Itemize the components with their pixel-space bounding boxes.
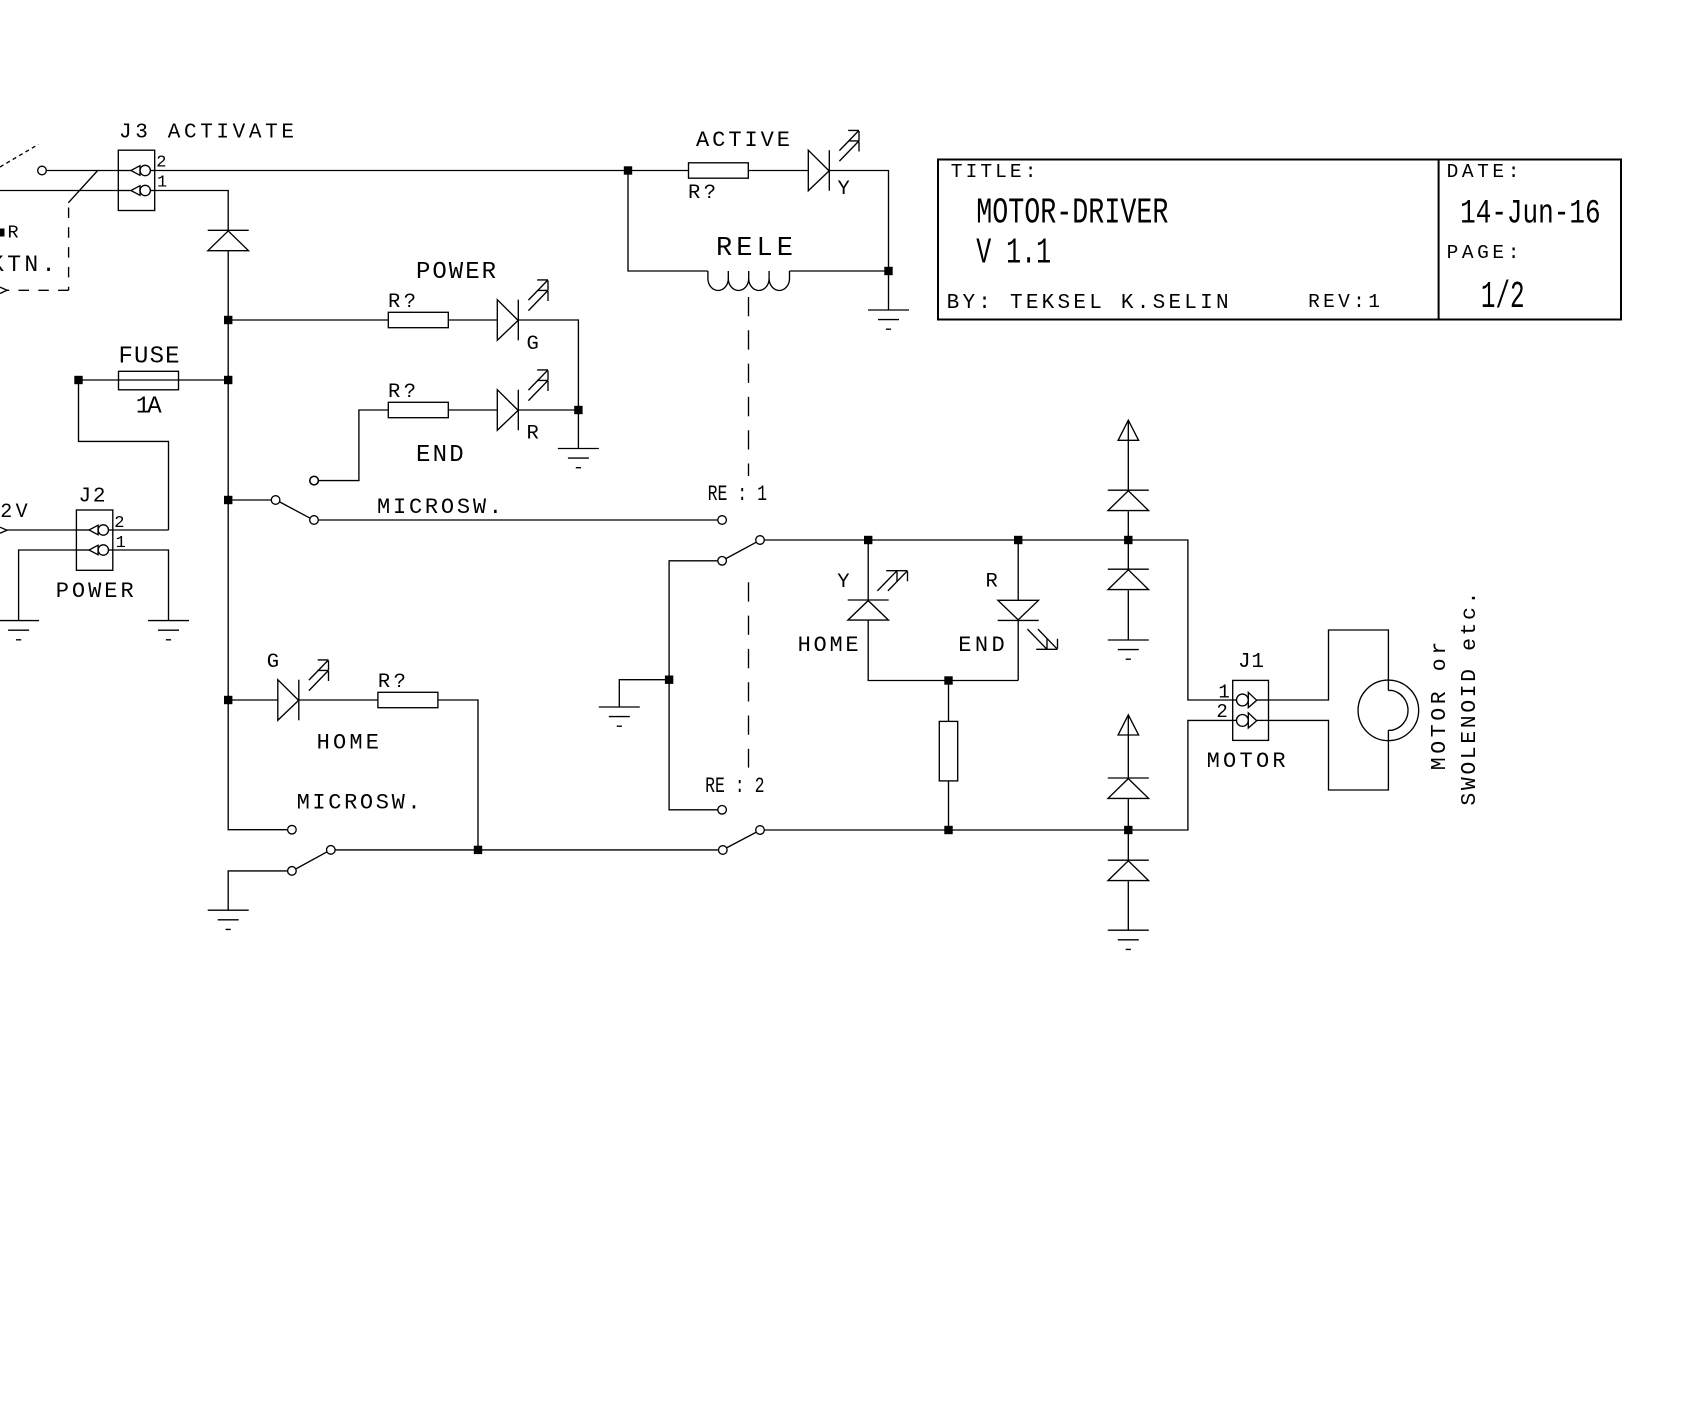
wire D3 to ground (1127, 590, 1129, 640)
svg-text:END: END (958, 633, 1005, 658)
svg-text:MOTOR-DRIVER: MOTOR-DRIVER (976, 193, 1168, 234)
wire R? HOME down to microswitch2 rail (438, 700, 478, 850)
ground END leds (558, 449, 599, 468)
label POWER (led) (416, 259, 496, 286)
RE:2 upper contact (718, 806, 727, 815)
wire LED G to R? (HOME) (299, 699, 378, 701)
wire top rail J3 to ACTIVE junction (155, 170, 689, 172)
ground J2 left (0, 621, 39, 640)
wire END switch contact to R? (319, 410, 389, 481)
label G (POWER led) (527, 333, 539, 356)
microswitch1 lower contact (310, 516, 319, 525)
wire ACTIVE junction down to coil left (628, 171, 708, 272)
RE:1 lever (726, 542, 756, 558)
label RE : 1 (708, 482, 767, 507)
wire R? to LED R (448, 409, 497, 411)
label END (relay led) (958, 633, 1005, 658)
RE:2 common contact (756, 826, 765, 835)
junction HOME resistor / microswitch2 rail (474, 846, 482, 854)
svg-text:2: 2 (156, 153, 166, 172)
junction bottom node resistor (944, 676, 952, 684)
ground RELE (868, 310, 909, 329)
svg-text:FUSE: FUSE (119, 344, 180, 371)
svg-text:12V: 12V (0, 501, 31, 524)
wire rail2 RE:2 common to J1 riser (764, 720, 1232, 830)
junction ACTIVE tap (624, 166, 632, 174)
LED Y (HOME) triangle (848, 601, 889, 621)
title block frame (938, 160, 1621, 320)
ground lower ladder (1108, 930, 1149, 949)
J3 pin number 2 (156, 153, 166, 172)
label MICROSW. (2) (297, 791, 421, 816)
wire J1 pin2 to motor loop (1269, 720, 1389, 790)
label PAGE: (1447, 242, 1520, 264)
label MICROSW. (1) (377, 495, 502, 520)
wire page edge to J3 pin 1 (0, 190, 118, 192)
wire J3 pin1 to diode D1 (155, 191, 229, 231)
label HOME (relay led) (798, 633, 859, 658)
connector J3 (118, 150, 154, 210)
label REV:1 (1308, 291, 1380, 313)
J1 pin number 1 (1218, 682, 1229, 704)
svg-text:RE : 2: RE : 2 (705, 774, 764, 799)
wire main rail down (228, 320, 287, 830)
LED G HOME arrows (309, 660, 329, 691)
label Y (ACTIVE led) (838, 178, 850, 201)
wire main rail to microswitch1 (232, 499, 271, 501)
wire rail1 to diode D3 (1127, 540, 1129, 569)
svg-text:2: 2 (1216, 701, 1227, 723)
LED Y HOME arrows (877, 571, 907, 591)
wire LED Y down to relay coil right (829, 171, 888, 272)
label J2 (79, 485, 106, 508)
junction main rail HOME led (224, 696, 232, 704)
svg-text:DATE:: DATE: (1447, 161, 1520, 183)
label R? (POWER) (388, 291, 416, 314)
svg-text:POWER: POWER (56, 579, 134, 604)
label BY: TEKSEL K.SELIN (947, 292, 1229, 315)
svg-text:J3 ACTIVATE: J3 ACTIVATE (119, 122, 294, 145)
wire junction to ground (577, 410, 579, 449)
wire rail1 to LED Y (HOME) (867, 540, 869, 600)
wire J2 pin 1 left to ground (19, 550, 77, 621)
diode D2 (upper ladder top) (1108, 490, 1149, 510)
wire R? to LED G (448, 319, 497, 321)
label END (416, 442, 464, 469)
fuse F1 body (119, 371, 179, 390)
microswitch1 lever (280, 502, 311, 518)
J3 pin 2 symbol (118, 165, 154, 175)
LED G (HOME) (278, 680, 299, 721)
LED R (END) triangle (998, 600, 1039, 620)
label R? (END) (388, 381, 416, 404)
svg-text:R: R (986, 570, 998, 593)
off-page arrow 12V (0, 527, 7, 533)
label 1A (136, 394, 163, 421)
ground J2 right (148, 621, 189, 640)
wire D4 to rail2 (1127, 799, 1129, 830)
resistor R? (END) (388, 402, 448, 417)
junction rail2 diode ladder (1124, 826, 1132, 834)
microswitch2 lower contact (288, 867, 297, 876)
label R (clipped word) (0, 223, 19, 244)
label J3 ACTIVATE (119, 122, 294, 145)
wire LED R to bottom node (1017, 620, 1019, 680)
svg-text:REV:1: REV:1 (1308, 291, 1380, 313)
relay coil RELE (708, 271, 790, 291)
wire fuse row (79, 379, 229, 381)
microswitch2 common contact (327, 846, 336, 855)
resistor (relay leds) vertical (939, 721, 957, 781)
motor M1 body (1358, 680, 1419, 741)
off-page arrow up (supply, upper ladder) (1118, 420, 1139, 440)
wire D5 to ground (1127, 881, 1129, 930)
wire J2 pin 1 right to ground (113, 550, 169, 621)
svg-text:J2: J2 (79, 485, 106, 508)
contact circle END microswitch (310, 476, 319, 485)
svg-text:G: G (527, 333, 539, 356)
junction main rail fuse (224, 376, 232, 384)
wire LED Y to bottom node (868, 620, 1018, 680)
label R? (HOME) (378, 671, 406, 694)
wire D2 to rail1 (1127, 511, 1129, 540)
junction rail2 resistor (944, 826, 952, 834)
junction fuse left (74, 376, 82, 384)
wire J2 pin 2 right (113, 529, 169, 531)
label FUSE (119, 344, 180, 371)
svg-text:V 1.1: V 1.1 (976, 233, 1051, 274)
junction rail1 LED R (1014, 536, 1022, 544)
J2 pin 2 symbol (76, 525, 112, 535)
svg-text:MOTOR: MOTOR (1207, 749, 1286, 774)
title V 1.1 (976, 233, 1051, 274)
microswitch2 upper contact (288, 825, 297, 834)
J3 pin number 1 (157, 174, 167, 193)
wire S1 contact to J3 pin 2 (46, 170, 118, 172)
svg-text:J1: J1 (1238, 651, 1264, 674)
LED Y (HOME) cathode bar (848, 599, 889, 601)
wire ground to microswitch2 lower (228, 871, 287, 910)
junction coil right (884, 267, 892, 275)
J1 pin 1 symbol (1233, 692, 1269, 707)
off-page arrow up (supply, lower ladder) (1118, 715, 1139, 735)
LED Y arrows (839, 130, 859, 161)
diode D5 (lower ladder bottom) (1108, 860, 1149, 880)
junction main rail microswitch1 (224, 496, 232, 504)
svg-text:Y: Y (838, 178, 850, 201)
RE:1 upper contact (718, 516, 727, 525)
wire HOME tap to LED G (228, 699, 278, 701)
date 14-Jun-16 (1460, 196, 1601, 234)
label KTN. (0, 252, 59, 278)
junction END leds (574, 406, 582, 414)
label DATE: (1447, 161, 1520, 183)
junction main rail POWER tap (224, 316, 232, 324)
label R (END relay led) (986, 570, 998, 593)
diode D1 (208, 230, 249, 250)
LED R (END) (497, 390, 518, 431)
wire rail1 RE:1 common to J1 riser (764, 540, 1232, 700)
label MOTOR (J1) (1207, 749, 1286, 774)
motor M1 inner arc (1388, 690, 1408, 730)
J1 pin 2 symbol (1233, 713, 1269, 728)
LED G arrows (528, 280, 548, 311)
wire resistor to rail2 (948, 781, 950, 830)
junction rail1 LED Y (864, 536, 872, 544)
wire power tap to R? (228, 319, 388, 321)
svg-text:1: 1 (157, 174, 167, 193)
diode D4 (lower ladder top) (1108, 778, 1149, 798)
RE:1 lower contact (718, 557, 727, 566)
wire fuse left to J2 pin2 riser (79, 380, 169, 530)
label POWER (J2) (56, 579, 134, 604)
wire microswitch1 to RE:1 (318, 519, 718, 521)
svg-text:KTN.: KTN. (0, 252, 59, 278)
ground contacts bus (599, 707, 640, 726)
svg-text:1/2: 1/2 (1481, 276, 1525, 319)
wire rail1 to LED R (END) (1017, 540, 1019, 600)
svg-text:G: G (267, 651, 279, 674)
LED R (END) cathode bar (998, 619, 1039, 621)
connector J2 (76, 510, 112, 570)
wire 12V to J2 pin 2 (7, 529, 76, 531)
switch S1 dashed lever (off-page) (0, 144, 39, 167)
label RELE (716, 234, 793, 264)
svg-text:RE : 1: RE : 1 (708, 482, 767, 507)
wire RE:1 lower contact to ground bus (669, 561, 718, 810)
svg-text:R: R (527, 423, 539, 446)
wire arrow to diode D2 (1127, 420, 1129, 490)
svg-text:PAGE:: PAGE: (1447, 242, 1520, 264)
switch S1 solid lever (68, 171, 97, 203)
junction rail1 diode ladder (1124, 536, 1132, 544)
label Y (HOME led) (837, 571, 849, 594)
microswitch2 lever (296, 852, 327, 869)
label HOME (led) (317, 730, 379, 755)
wire LED R to junction (518, 409, 578, 411)
wire J1 pin1 to motor loop (1269, 630, 1389, 700)
connector J1 (1233, 680, 1269, 740)
J1 pin number 2 (1216, 701, 1227, 723)
svg-text:Y: Y (837, 571, 849, 594)
LED Y (ACTIVE) (808, 150, 829, 191)
page 1/2 (1481, 276, 1525, 319)
label R? (ACTIVE) (688, 182, 716, 205)
microswitch1 upper contact (310, 476, 319, 485)
diode D3 (upper ladder bottom) (1108, 569, 1149, 589)
resistor R? (POWER) (388, 312, 448, 327)
mechanical link dashed wire (7, 208, 69, 291)
ground microswitch2 (208, 910, 249, 929)
label J1 (1238, 651, 1264, 674)
RE:2 lever (727, 832, 757, 848)
microswitch1 common contact (271, 496, 280, 505)
wire node to resistor (948, 681, 950, 722)
wire microswitch2 common to RE:2 (335, 849, 718, 851)
label R (END led) (527, 423, 539, 446)
label TITLE: (951, 161, 1037, 183)
wire D1 to main rail (227, 251, 229, 320)
label RE : 2 (705, 774, 764, 799)
wire tee to ground (619, 680, 669, 707)
label 12V (0, 501, 31, 524)
svg-text:POWER: POWER (416, 259, 496, 286)
J2 pin number 2 (114, 514, 124, 533)
title MOTOR-DRIVER (976, 193, 1168, 234)
wire R? to LED Y (ACTIVE) (748, 170, 808, 172)
LED R END arrows (1027, 629, 1057, 649)
wire coil right to ground (790, 271, 889, 310)
RE:1 common contact (756, 536, 765, 545)
svg-text:R: R (8, 223, 19, 244)
title block divider (1438, 160, 1440, 320)
resistor R? (ACTIVE) (689, 163, 749, 178)
off-page arrow ACTIVATE linkage (0, 287, 7, 293)
J2 pin number 1 (116, 534, 126, 553)
wire LED G to END node (518, 320, 578, 410)
resistor R? (HOME) (378, 692, 438, 707)
label MOTOR or (rotated) (1428, 642, 1452, 771)
label ACTIVE (696, 128, 790, 153)
J2 pin 1 symbol (76, 545, 112, 555)
RE:2 lower contact (719, 846, 728, 855)
J3 pin 1 symbol (118, 185, 154, 195)
svg-text:END: END (416, 442, 464, 469)
relay actuation dashed line (748, 297, 750, 768)
svg-text:14-Jun-16: 14-Jun-16 (1460, 196, 1601, 234)
wire arrow to diode D4 (1127, 715, 1129, 778)
LED R arrows (528, 370, 548, 401)
wire rail2 to diode D5 (1127, 830, 1129, 860)
switch S1 contact (38, 166, 47, 175)
label G (HOME led) (267, 651, 279, 674)
LED G (POWER) (497, 300, 518, 341)
ground upper ladder (1108, 640, 1149, 659)
label SWOLENOID etc. (rotated) (1458, 592, 1482, 806)
junction ground bus tee (665, 676, 673, 684)
svg-text:1A: 1A (136, 394, 163, 421)
